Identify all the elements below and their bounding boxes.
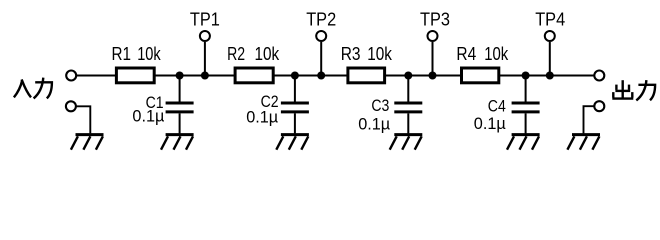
svg-text:10k: 10k (367, 44, 393, 64)
test point TP4 (545, 31, 555, 76)
test point TP2 (316, 31, 326, 76)
resistor R3 (348, 68, 385, 83)
svg-text:R2: R2 (227, 44, 245, 64)
terminal output upper (594, 71, 604, 81)
input label 入力 (14, 78, 52, 99)
label C4 (488, 96, 506, 115)
ground C1 (161, 135, 194, 150)
junction node TP4 (546, 72, 554, 80)
wire input lower to ground (76, 106, 90, 133)
junction node TP1 (201, 72, 209, 80)
svg-text:C4: C4 (488, 96, 506, 115)
capacitor C3 (394, 76, 422, 134)
junction node C2 (291, 72, 299, 80)
label TP4 (535, 9, 565, 29)
ground C3 (390, 135, 423, 150)
wire main horizontal bus (76, 75, 594, 77)
svg-text:TP2: TP2 (306, 9, 336, 29)
capacitor C2 (281, 76, 309, 134)
capacitor C1 (166, 76, 194, 134)
terminal output lower (594, 101, 604, 111)
label R4 10k (456, 44, 509, 64)
svg-text:0.1µ: 0.1µ (358, 114, 390, 133)
svg-text:0.1µ: 0.1µ (246, 108, 278, 127)
svg-text:R4: R4 (456, 44, 476, 64)
label C2 (261, 92, 279, 111)
ground input (71, 135, 104, 150)
capacitor C4 (512, 76, 540, 134)
label C1 value 0.1µ (132, 106, 164, 125)
ground C2 (276, 135, 309, 150)
test point TP3 (428, 31, 438, 76)
svg-text:10k: 10k (137, 44, 161, 64)
label R1 10k (112, 44, 162, 64)
resistor R2 (235, 68, 273, 83)
label R3 10k (341, 44, 393, 64)
resistor R4 (462, 68, 499, 83)
svg-text:10k: 10k (484, 44, 509, 64)
svg-text:TP1: TP1 (190, 9, 220, 29)
label TP3 (420, 9, 450, 29)
junction node TP3 (429, 72, 437, 80)
junction node C4 (522, 72, 530, 80)
label TP2 (306, 9, 336, 29)
junction node TP2 (317, 72, 325, 80)
label C3 value 0.1µ (358, 114, 390, 133)
svg-text:0.1µ: 0.1µ (132, 106, 164, 125)
label TP1 (190, 9, 220, 29)
ground C4 (507, 135, 540, 150)
label C1 (146, 93, 164, 112)
label C4 value 0.1µ (474, 114, 506, 133)
label C2 value 0.1µ (246, 108, 278, 127)
svg-text:0.1µ: 0.1µ (474, 114, 506, 133)
svg-text:TP4: TP4 (535, 9, 565, 29)
svg-text:R3: R3 (341, 44, 361, 64)
label C3 (371, 96, 389, 115)
wire output lower to ground (584, 106, 595, 133)
junction node C3 (404, 72, 412, 80)
junction node C1 (176, 72, 184, 80)
terminal input upper (66, 71, 76, 81)
test point TP1 (200, 31, 210, 76)
ground output (567, 135, 600, 150)
resistor R1 (116, 68, 154, 83)
svg-text:10k: 10k (255, 44, 281, 64)
svg-text:C3: C3 (371, 96, 389, 115)
svg-text:TP3: TP3 (420, 9, 450, 29)
svg-text:R1: R1 (112, 44, 132, 64)
output label 出力 (612, 80, 655, 100)
label R2 10k (227, 44, 280, 64)
terminal input lower (66, 101, 76, 111)
